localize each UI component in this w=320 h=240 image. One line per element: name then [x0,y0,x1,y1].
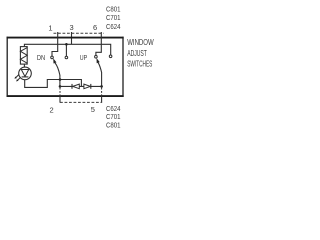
svg-text:C624: C624 [106,22,121,31]
LED emission arrow 1 [17,77,20,80]
svg-text:2: 2 [50,105,54,114]
junction dot on bus [65,43,68,46]
DN switch fixed contact [65,56,68,59]
UP switch pivot contact [95,55,98,58]
LED emission arrow 2 [16,75,19,78]
wire DN fixed contact to bus [65,44,67,56]
DN switch blade with arrowhead [55,63,60,75]
junction dot LED wire / DN common [59,78,62,81]
wire LED cathode to diode mid node [25,80,82,88]
svg-text:6: 6 [93,23,97,32]
top connector dashed line [54,32,104,34]
switch assembly outer box [7,37,124,39]
svg-text:SWITCHES: SWITCHES [127,59,152,68]
wire pin 1 to DN pivot [52,32,58,56]
DN common wire [59,75,61,86]
svg-text:DN: DN [37,53,45,62]
svg-text:C801: C801 [106,121,121,130]
svg-text:3: 3 [70,23,74,32]
svg-text:UP: UP [80,53,87,62]
svg-text:WINDOW: WINDOW [127,38,154,47]
UP switch fixed contact [109,55,112,58]
diode right (cathode right) [84,84,91,89]
svg-text:ADJUST: ADJUST [127,49,147,58]
wire pin 6 to UP pivot [96,32,101,55]
svg-text:5: 5 [91,105,95,114]
UP common wire [101,72,103,86]
diode left (cathode left) [71,84,73,89]
resistor R (illumination) [20,47,27,65]
bottom connector dashed line [60,101,101,103]
pin 3 tick / wire to bus [71,32,73,44]
diode wire between commons [60,85,102,87]
UP switch blade with arrowhead [98,63,101,73]
LED (illumination) [19,67,32,80]
DN switch pivot contact [51,56,54,59]
internal bus wire (resistor top to UP fixed contact) [24,44,110,55]
wire resistor to LED [23,64,25,67]
svg-text:1: 1 [48,23,52,32]
